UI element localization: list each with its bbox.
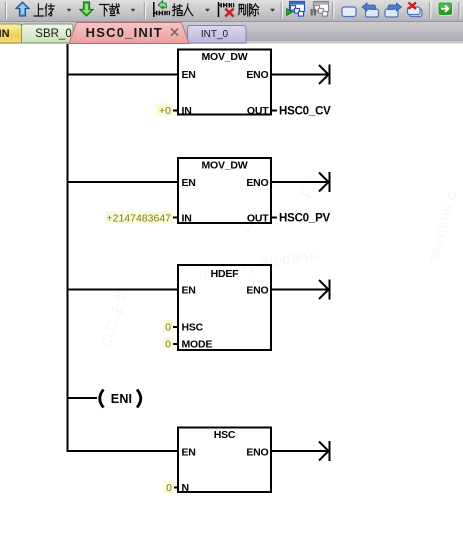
svg-text:IN: IN (182, 213, 192, 225)
svg-text:OUT: OUT (247, 105, 269, 117)
svg-text:ENO: ENO (246, 285, 268, 297)
svg-text:ENO: ENO (246, 447, 268, 459)
svg-text:0: 0 (165, 322, 171, 334)
svg-text:IN: IN (182, 105, 192, 117)
svg-text:ENI: ENI (111, 392, 132, 406)
svg-text:EN: EN (182, 177, 196, 189)
svg-text:OUT: OUT (247, 213, 269, 225)
svg-text:MOV_DW: MOV_DW (201, 51, 247, 63)
svg-text:EN: EN (182, 285, 196, 297)
svg-text:siemens.c: siemens.c (425, 190, 460, 264)
svg-text:HSC0_CV: HSC0_CV (279, 106, 331, 118)
svg-text:+0: +0 (159, 105, 171, 117)
svg-text:+2147483647: +2147483647 (106, 213, 171, 225)
svg-text:HSC: HSC (182, 322, 204, 334)
svg-text:EN: EN (182, 69, 196, 81)
svg-text:HDEF: HDEF (211, 268, 240, 280)
svg-text:ENO: ENO (246, 69, 268, 81)
svg-text:MODE: MODE (182, 339, 213, 351)
svg-text:HSC0_PV: HSC0_PV (279, 213, 331, 225)
svg-text:0: 0 (165, 339, 171, 351)
svg-text:EN: EN (182, 447, 196, 459)
svg-text:SBR_0: SBR_0 (35, 28, 71, 40)
svg-text:N: N (182, 482, 189, 494)
svg-text:0: 0 (166, 482, 172, 494)
svg-text:ENO: ENO (246, 177, 268, 189)
svg-text:MAIN: MAIN (0, 28, 10, 40)
svg-text:HSC0_INIT: HSC0_INIT (86, 25, 163, 40)
svg-text:HSC: HSC (214, 429, 236, 441)
svg-text:INT_0: INT_0 (201, 29, 229, 40)
svg-text:MOV_DW: MOV_DW (201, 160, 247, 172)
